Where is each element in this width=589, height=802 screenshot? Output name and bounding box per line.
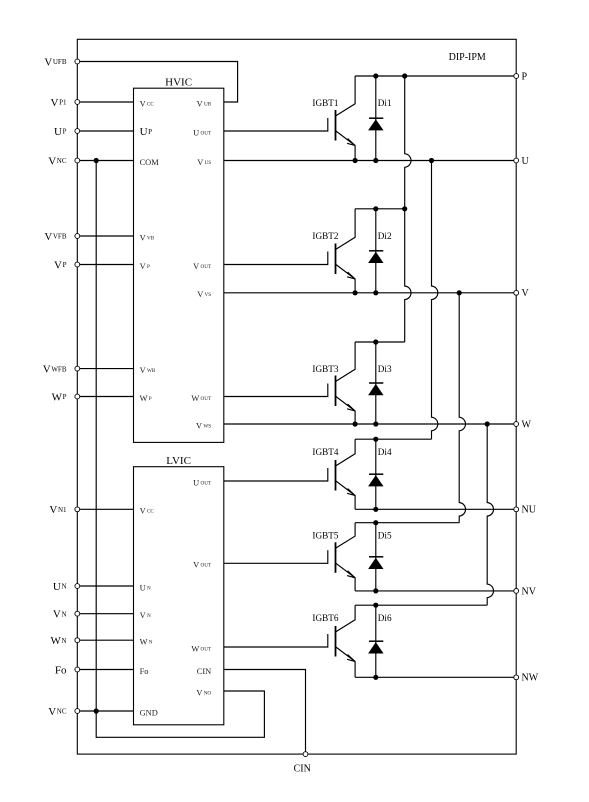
wire NW rail (IGBT6 emitter to NW terminal) <box>355 676 516 678</box>
wire U_N to LVIC U_N <box>77 585 133 587</box>
terminal U <box>514 156 530 167</box>
junction node (487,424) <box>485 421 490 426</box>
svg-text:VCC: VCC <box>140 507 155 516</box>
svg-text:UN: UN <box>140 583 151 592</box>
terminal W_N <box>75 638 80 643</box>
wire COM-GND bus (V_NC to V_NO loop) <box>96 161 264 738</box>
junction node (355,160) <box>353 158 358 163</box>
wire IGBT2 collector rail <box>355 208 405 210</box>
svg-text:WOUT: WOUT <box>191 394 212 403</box>
HVIC pin label V_VB <box>140 233 155 242</box>
svg-text:VNO: VNO <box>196 688 211 697</box>
junction node (376,439) <box>373 437 378 442</box>
svg-text:Di2: Di2 <box>378 231 392 241</box>
wire V phase feed to IGBT5 collector (hops over W,NU rails) <box>459 293 465 523</box>
input terminal label V_N1 <box>49 504 67 516</box>
LVIC pin label CIN <box>197 667 211 676</box>
HVIC pin label V_UB <box>197 99 212 108</box>
svg-text:Fo: Fo <box>55 664 67 676</box>
wire V_N to LVIC V_N <box>77 613 133 615</box>
label DIP-IPM <box>449 52 486 63</box>
wire IGBT6 collector rail <box>355 604 487 606</box>
input terminal label V_NC <box>48 155 67 167</box>
junction node (376,293) <box>373 290 378 295</box>
junction node (376,424) <box>373 421 378 426</box>
terminal V_N <box>75 611 80 616</box>
svg-text:NW: NW <box>522 673 539 684</box>
input terminal label V_P <box>54 259 67 271</box>
wire NV rail (IGBT5 emitter to NV terminal) <box>355 590 516 592</box>
transistor IGBT4 <box>224 439 355 509</box>
wire W_N to LVIC W_N <box>77 639 133 641</box>
terminal P <box>514 71 528 82</box>
wire W output rail (HVIC V_WS to W terminal) <box>224 423 516 425</box>
svg-text:VN: VN <box>140 611 151 620</box>
svg-text:VWB: VWB <box>140 366 156 375</box>
junction node (376,160) <box>373 158 378 163</box>
svg-text:VCC: VCC <box>140 99 155 108</box>
wire V_P to HVIC V_P <box>77 264 133 266</box>
svg-text:IGBT6: IGBT6 <box>312 613 338 623</box>
HVIC pin label V_OUT <box>193 262 212 271</box>
wire W phase feed to IGBT6 collector (hops over NU,NV rails) <box>487 424 493 605</box>
terminal V_N1 <box>75 507 80 512</box>
junction node (376,523) <box>373 520 378 525</box>
svg-text:P: P <box>522 71 528 82</box>
input terminal label V_NC <box>48 706 67 718</box>
wire P rail (IGBT1 collector to P terminal) <box>355 75 516 77</box>
terminal V_P1 <box>75 100 80 105</box>
terminal V_P <box>75 262 80 267</box>
junction node (376,342) <box>373 339 378 344</box>
svg-text:IGBT5: IGBT5 <box>312 531 338 541</box>
diode Di6 <box>368 605 392 677</box>
svg-text:IGBT3: IGBT3 <box>312 364 338 374</box>
svg-text:Di5: Di5 <box>378 531 392 541</box>
LVIC pin label W_OUT <box>191 644 212 653</box>
svg-text:CIN: CIN <box>294 763 311 774</box>
svg-text:CIN: CIN <box>197 667 211 676</box>
wire V_WFB to HVIC V_WB <box>77 368 133 370</box>
wire NU rail (IGBT4 emitter to NU terminal) <box>355 508 516 510</box>
svg-text:Fo: Fo <box>140 667 149 676</box>
LVIC pin label V_N <box>140 611 151 620</box>
terminal NW <box>514 673 539 684</box>
svg-text:VUS: VUS <box>197 158 211 167</box>
LVIC pin label W_N <box>140 638 153 647</box>
HVIC pin label V_WS <box>196 421 211 430</box>
svg-text:Di4: Di4 <box>378 447 392 457</box>
LVIC pin label GND <box>140 708 158 717</box>
terminal W <box>514 419 532 430</box>
svg-text:COM: COM <box>140 158 160 167</box>
svg-text:Di1: Di1 <box>378 98 392 108</box>
junction node on COM wire <box>94 158 99 163</box>
input terminal label W_N <box>50 635 66 647</box>
wire IGBT5 collector rail <box>355 522 459 524</box>
input terminal label V_VFB <box>44 231 67 243</box>
wire U_P to HVIC U_P <box>77 130 133 132</box>
wire P bus feeding IGBT1-3 collectors (hops over U,V rails) <box>405 76 411 342</box>
wire LVIC CIN to CIN terminal <box>224 670 306 755</box>
wire V_NC to LVIC GND <box>77 710 133 712</box>
wire U output rail (HVIC V_US to U terminal) <box>224 160 516 162</box>
svg-text:VOUT: VOUT <box>193 262 212 271</box>
diode Di4 <box>368 439 392 509</box>
svg-text:VP: VP <box>140 262 150 271</box>
HVIC pin label V_US <box>197 158 211 167</box>
svg-text:V: V <box>522 288 530 299</box>
HVIC pin label W_OUT <box>191 394 212 403</box>
svg-text:WN: WN <box>140 638 153 647</box>
input terminal label U_N <box>53 581 67 593</box>
svg-text:UOUT: UOUT <box>193 128 212 137</box>
terminal V_NC <box>75 158 80 163</box>
junction node (459,293) <box>457 290 462 295</box>
diode Di2 <box>368 209 392 293</box>
svg-text:IGBT4: IGBT4 <box>312 447 338 457</box>
diode Di3 <box>368 342 392 424</box>
junction node (355,424) <box>353 421 358 426</box>
svg-text:HVIC: HVIC <box>165 77 192 89</box>
input terminal label V_N <box>53 609 67 621</box>
wire V_VFB to HVIC V_VB <box>77 235 133 237</box>
svg-text:WOUT: WOUT <box>191 644 212 653</box>
input terminal label V_P1 <box>51 97 67 109</box>
wire V_UFB to HVIC V_UB <box>77 62 237 103</box>
svg-text:U: U <box>522 156 530 167</box>
wire U phase feed to IGBT4 collector (hops over V,W rails) <box>432 161 438 440</box>
svg-text:Di3: Di3 <box>378 364 392 374</box>
wire V output rail (HVIC V_VS to V terminal) <box>224 292 516 294</box>
wire IGBT3 collector rail <box>355 341 405 343</box>
input terminal label W_P <box>52 391 67 403</box>
wire Fo to LVIC Fo <box>77 669 133 671</box>
HVIC pin label V_WB <box>140 366 156 375</box>
junction node (376,209) <box>373 206 378 211</box>
junction node (376,76) <box>373 73 378 78</box>
svg-text:LVIC: LVIC <box>166 455 191 467</box>
transistor IGBT2 <box>224 209 355 293</box>
HVIC pin label U_P <box>140 126 153 138</box>
terminal CIN <box>294 752 311 775</box>
svg-text:VVB: VVB <box>140 233 155 242</box>
svg-text:VUB: VUB <box>197 99 212 108</box>
junction node (432,160) <box>429 158 434 163</box>
wire V_P1 to HVIC V_CC <box>77 101 133 103</box>
svg-text:WP: WP <box>140 394 152 403</box>
junction node (405,209) <box>402 206 407 211</box>
junction node (405,76) <box>402 73 407 78</box>
terminal V_NC <box>75 709 80 714</box>
transistor IGBT5 <box>224 523 355 591</box>
terminal V_UFB <box>75 59 80 64</box>
DIP-IPM package outline <box>77 39 516 754</box>
terminal NU <box>514 505 537 516</box>
HVIC pin label V_VS <box>197 290 211 299</box>
input terminal label V_WFB <box>43 364 67 376</box>
LVIC pin label Fo <box>140 667 149 676</box>
HVIC pin label W_P <box>140 394 152 403</box>
diode Di1 <box>368 76 392 161</box>
input terminal label Fo <box>55 664 67 676</box>
HVIC pin label COM <box>140 158 160 167</box>
LVIC pin label V_NO <box>196 688 211 697</box>
terminal U_N <box>75 584 80 589</box>
svg-text:VOUT: VOUT <box>193 561 212 570</box>
junction node (376,677) <box>373 675 378 680</box>
svg-text:IGBT2: IGBT2 <box>312 231 338 241</box>
driver IC LVIC <box>134 455 224 725</box>
LVIC pin label V_CC <box>140 507 155 516</box>
wire IGBT4 collector rail <box>355 438 431 440</box>
svg-text:UOUT: UOUT <box>193 478 212 487</box>
diode Di5 <box>368 523 392 591</box>
svg-text:GND: GND <box>140 708 158 717</box>
terminal U_P <box>75 129 80 134</box>
junction node (376,591) <box>373 588 378 593</box>
svg-text:IGBT1: IGBT1 <box>312 98 338 108</box>
svg-text:VVS: VVS <box>197 290 211 299</box>
wire W_P to HVIC W_P <box>77 396 133 398</box>
HVIC pin label U_OUT <box>193 128 212 137</box>
transistor IGBT3 <box>224 342 355 424</box>
wire V_NC to HVIC COM <box>77 160 133 162</box>
svg-text:Di6: Di6 <box>378 613 392 623</box>
wire V_N1 to LVIC V_CC <box>77 508 133 510</box>
terminal V_VFB <box>75 234 80 239</box>
transistor IGBT1 <box>224 76 355 161</box>
svg-text:NV: NV <box>522 586 537 597</box>
junction node (376,509) <box>373 507 378 512</box>
input terminal label V_UFB <box>44 56 67 68</box>
terminal NV <box>514 586 537 597</box>
junction node (376,605) <box>373 603 378 608</box>
LVIC pin label U_N <box>140 583 151 592</box>
svg-text:W: W <box>522 419 532 430</box>
LVIC pin label V_OUT <box>193 561 212 570</box>
junction node (355,293) <box>353 290 358 295</box>
terminal V_WFB <box>75 366 80 371</box>
terminal Fo <box>75 667 80 672</box>
svg-text:VWS: VWS <box>196 421 211 430</box>
svg-text:NU: NU <box>522 505 537 516</box>
terminal V <box>514 288 530 299</box>
HVIC pin label V_P <box>140 262 150 271</box>
LVIC pin label U_OUT <box>193 478 212 487</box>
svg-text:DIP-IPM: DIP-IPM <box>449 52 486 63</box>
terminal W_P <box>75 394 80 399</box>
HVIC pin label V_CC <box>140 99 155 108</box>
input terminal label U_P <box>54 126 67 138</box>
op-amp/driver IC HVIC <box>134 77 224 443</box>
junction node on GND wire <box>94 708 99 713</box>
transistor IGBT6 <box>224 605 355 677</box>
